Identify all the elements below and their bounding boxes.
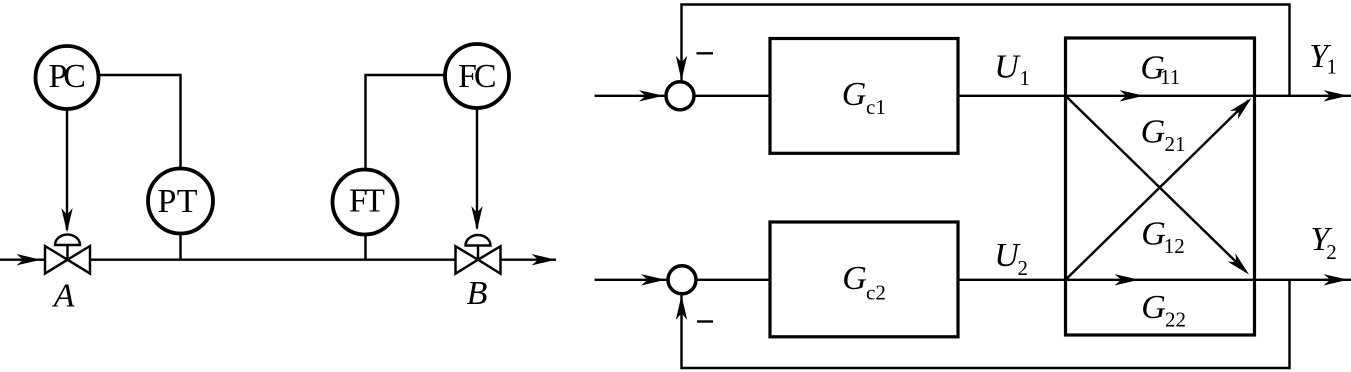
svg-text:21: 21 (1165, 132, 1186, 156)
svg-text:11: 11 (1160, 65, 1180, 89)
svg-text:FT: FT (349, 183, 385, 220)
svg-text:PC: PC (48, 58, 86, 95)
svg-text:c2: c2 (866, 281, 886, 305)
svg-text:1: 1 (1020, 66, 1031, 90)
svg-text:U: U (994, 49, 1021, 86)
svg-text:FC: FC (458, 58, 497, 95)
svg-text:PT: PT (158, 183, 198, 220)
svg-text:2: 2 (1018, 256, 1029, 280)
svg-text:B: B (467, 275, 488, 312)
svg-text:G: G (1141, 289, 1166, 326)
svg-text:1: 1 (1327, 54, 1338, 78)
svg-text:G: G (842, 76, 867, 113)
svg-text:22: 22 (1165, 307, 1186, 331)
svg-text:A: A (52, 277, 75, 314)
svg-text:G: G (1141, 113, 1166, 150)
svg-text:12: 12 (1164, 234, 1185, 258)
svg-text:2: 2 (1326, 240, 1337, 264)
svg-text:c1: c1 (866, 95, 886, 119)
svg-text:G: G (1141, 216, 1166, 253)
svg-text:G: G (842, 260, 867, 297)
